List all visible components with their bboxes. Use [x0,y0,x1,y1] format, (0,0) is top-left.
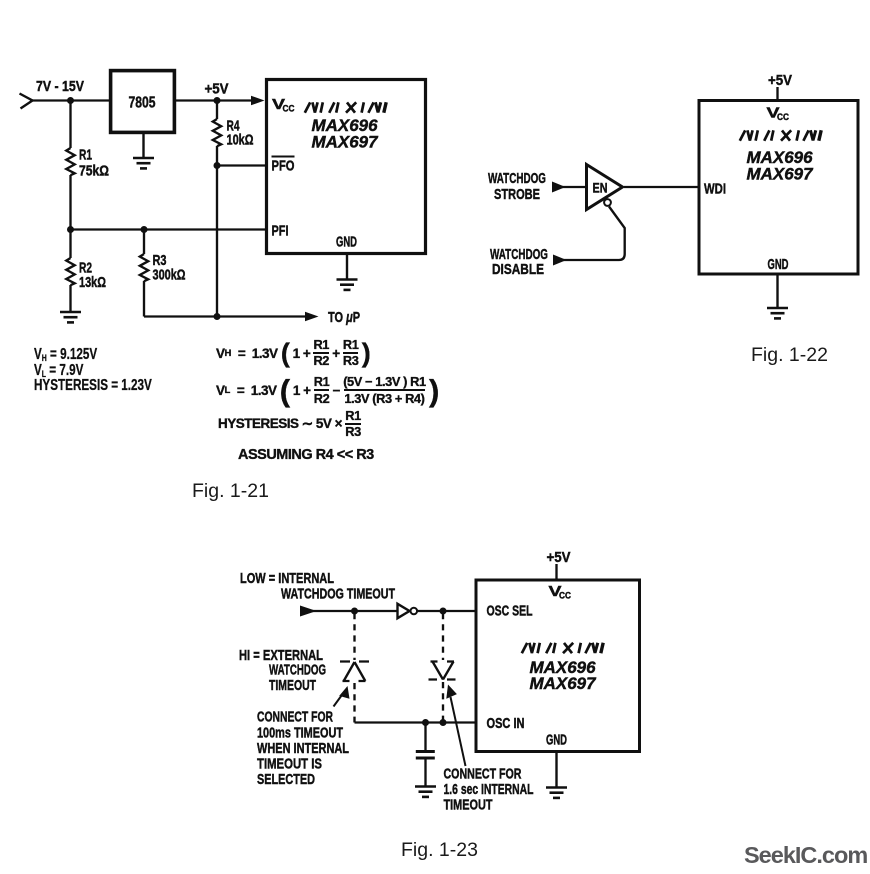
junction PFI/R3 [141,226,148,233]
wire inverter to OSC SEL [418,610,477,612]
input arrow fig23 [300,606,317,617]
wire EN to WDI [624,186,698,188]
computed values block [34,347,152,394]
arrow watchdog disable [553,255,567,266]
svg-text:+5V: +5V [768,73,792,89]
junction PFI/R1 [67,226,74,233]
arrow note1 to D1 [334,686,350,707]
svg-text:WATCHDOG: WATCHDOG [488,171,546,187]
svg-text:EN: EN [593,181,608,196]
wire input to 7805 [30,99,110,101]
svg-text:WATCHDOG: WATCHDOG [269,663,326,679]
ground under IC fig22 [767,274,788,318]
resistor R4 10k [213,101,254,166]
resistor R3 300k [140,230,186,317]
input terminal chevron [20,94,33,109]
wire PFI [71,228,266,230]
wire disable to EN bubble [561,207,625,261]
svg-text:75kΩ: 75kΩ [79,164,109,180]
arrow watchdog strobe [552,182,566,193]
svg-text:GND: GND [546,733,567,749]
buffer EN [587,165,623,210]
svg-text:GND: GND [336,235,357,251]
arrowhead to uP [305,312,319,322]
svg-text:WATCHDOG: WATCHDOG [490,247,548,263]
wire PFO [217,164,265,166]
caption Fig. 1-22 [751,344,828,367]
junction uP line / R4 branch [214,313,221,320]
svg-text:R1: R1 [79,148,92,164]
equation VH [216,338,370,368]
wire strobe to EN [560,186,586,188]
svg-text:7805: 7805 [129,95,156,112]
wire R4 junction down to uP line [216,166,218,317]
equation hysteresis [218,410,361,438]
svg-text:PFO: PFO [272,159,295,175]
junction diode2/OSC IN [440,719,447,726]
arrowhead into Vcc [251,96,265,106]
svg-text:MAX697: MAX697 [530,674,598,693]
note connect for 100ms [257,710,349,789]
svg-text:CC: CC [283,104,295,115]
inverter bubble [411,608,418,615]
svg-text:100ms TIMEOUT: 100ms TIMEOUT [257,726,343,742]
note connect for 1.6 sec [444,767,534,814]
wire OSC IN [355,721,477,723]
arrow note2 to D2 [446,685,465,767]
wire to microprocessor [144,315,306,317]
ground under IC fig21 [337,255,358,290]
svg-text:10kΩ: 10kΩ [227,133,254,149]
svg-text:MAX697: MAX697 [312,133,380,152]
svg-text:CC: CC [777,112,789,123]
svg-text:OSC IN: OSC IN [487,716,525,732]
junction +5V/R4 [214,97,221,104]
svg-text:OSC SEL: OSC SEL [487,604,533,620]
resistor R2 13k [66,230,106,313]
svg-text:TIMEOUT: TIMEOUT [269,678,316,694]
equation VL [216,374,439,407]
resistor R1 75k [66,101,109,230]
svg-text:PFI: PFI [272,224,289,240]
diode D2 (dashed, pointing down) [429,662,459,680]
svg-text:1.6 sec INTERNAL: 1.6 sec INTERNAL [444,782,534,798]
svg-text:+5V: +5V [547,550,571,566]
svg-text:300kΩ: 300kΩ [153,268,186,284]
svg-text:CONNECT FOR: CONNECT FOR [257,710,333,726]
dashed line 1 lower [353,683,355,723]
dashed line 1 upper [353,613,355,660]
junction inverter/diode2 [440,608,447,615]
svg-text:+5V: +5V [205,82,229,98]
regulator 7805 [111,71,175,133]
+5V supply fig23 [547,550,571,580]
svg-text:MAX697: MAX697 [747,165,815,184]
dashed line 2 upper [442,613,444,660]
svg-text:STROBE: STROBE [494,187,540,203]
ground under IC fig23 [546,751,567,798]
svg-text:LOW = INTERNAL: LOW = INTERNAL [240,571,334,587]
junction capacitor [422,719,429,726]
enable bubble [604,199,611,206]
inverter [398,604,410,618]
junction input/R1 [67,97,74,104]
junction input/diode1 [351,608,358,615]
svg-text:13kΩ: 13kΩ [79,275,106,291]
ground under R2 [60,312,81,322]
SeekIC.com watermark [744,842,867,869]
svg-text:TIMEOUT IS: TIMEOUT IS [257,757,322,773]
svg-text:TO μP: TO μP [328,310,360,326]
svg-text:WHEN INTERNAL: WHEN INTERNAL [257,741,349,757]
svg-text:TIMEOUT: TIMEOUT [444,798,493,814]
caption Fig. 1-23 [401,839,478,862]
equation assumption [238,446,374,463]
capacitor C1 [416,723,435,787]
svg-text:7V - 15V: 7V - 15V [36,79,84,95]
dashed line 2 lower [442,682,444,723]
wire input to inverter [310,610,397,612]
svg-text:CONNECT FOR: CONNECT FOR [444,767,522,783]
svg-text:DISABLE: DISABLE [492,262,544,278]
caption Fig. 1-21 [192,480,269,503]
svg-text:GND: GND [768,257,789,273]
IC MAX696/697 (fig 1-21) [267,80,426,254]
wire 7805 to Vcc [175,99,254,101]
junction R4/PFO [214,162,221,169]
svg-text:WATCHDOG TIMEOUT: WATCHDOG TIMEOUT [281,587,395,603]
svg-text:CC: CC [559,591,571,602]
+5V supply fig22 [768,73,792,100]
diode D1 (dashed, pointing up) [340,662,370,682]
svg-text:SELECTED: SELECTED [257,772,315,788]
ground under 7805 [133,134,154,169]
IC MAX696/697 (fig 1-23) [476,580,640,752]
svg-text:WDI: WDI [704,182,726,198]
ground under capacitor [415,787,436,797]
IC MAX696/697 (fig 1-22) [699,101,858,275]
